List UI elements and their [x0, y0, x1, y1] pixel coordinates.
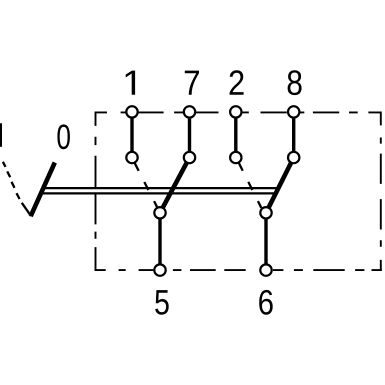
- terminal 5 pin and contact circles with stub wire: [154, 207, 165, 276]
- closed contact blade terminal 8 to terminal 6: [266, 158, 294, 213]
- pin label 7: [185, 71, 199, 95]
- terminal 8 pin and contact circles with stub wire: [288, 106, 299, 163]
- housing outline left side (dash-dot): [95, 112, 97, 271]
- open contact dashed blade from contact 1 toward terminal 5: [135, 163, 158, 208]
- position label 0: [57, 124, 69, 149]
- terminal 7 pin and contact circles with stub wire: [184, 106, 195, 163]
- closed contact blade terminal 7 to terminal 5: [160, 158, 190, 213]
- open contact dashed blade from contact 2 toward terminal 6: [239, 163, 262, 208]
- housing outline bottom side (dash-dot): [95, 269, 382, 271]
- housing outline top side (dash-dot): [96, 111, 381, 113]
- pin label 6: [259, 290, 272, 315]
- terminal 2 pin and contact circles with stub wire: [230, 106, 241, 163]
- terminal 6 pin and contact circles with stub wire: [260, 207, 271, 276]
- terminal 0 stub (left edge): [0, 123, 2, 147]
- pin label 1: [126, 71, 135, 95]
- lever position 0 dashed line: [3, 162, 20, 199]
- actuator bar lower line: [43, 192, 276, 194]
- pin label 8: [288, 70, 302, 95]
- terminal 1 pin and contact circles with stub wire: [126, 106, 137, 163]
- pin label 2: [230, 70, 244, 95]
- operating lever (thick): [31, 163, 55, 217]
- lever thin arm to pivot: [22, 203, 31, 216]
- housing outline right side (dash-dot): [380, 112, 382, 272]
- pin label 5: [155, 290, 169, 315]
- actuator bar upper line: [44, 187, 279, 189]
